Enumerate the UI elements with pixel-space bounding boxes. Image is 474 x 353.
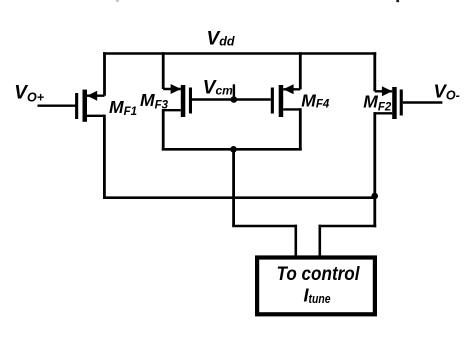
wire M_F1 source to M_F2 source (bottom long wire) <box>103 196 376 199</box>
wire rail drop to M_F2 drain <box>373 52 376 91</box>
wire rail drop to M_F4 drain <box>299 52 302 89</box>
box To control Itune <box>257 258 375 315</box>
wire right branch horizontal to box <box>319 225 377 228</box>
wire M_F2 source down <box>373 112 376 227</box>
wire tail down from sources node <box>232 149 235 226</box>
wire tail horizontal to box <box>232 225 297 228</box>
wire M_F3 source down <box>162 109 165 151</box>
wire rail drop to M_F3 drain <box>162 52 165 89</box>
transistor M_F1 <box>75 90 104 122</box>
svg-text:To control: To control <box>277 264 361 285</box>
wire M_F2 gate to Vo- <box>403 101 443 103</box>
node Vcm junction dot <box>231 96 238 103</box>
wire right stub into box <box>318 225 321 258</box>
wire tail stub into box <box>294 225 297 258</box>
node tail junction dot <box>230 146 237 153</box>
wire Vdd rail <box>103 52 376 55</box>
cropped text remnant top left <box>116 0 119 2</box>
wire Vcm line (M_F3 gate to M_F4 gate) <box>192 98 271 100</box>
transistor M_F3 <box>163 84 192 117</box>
cropped text remnant top right <box>396 0 399 2</box>
wire M_F1 source down <box>103 115 106 199</box>
wire M_F4 source down <box>299 108 302 150</box>
wire rail drop to M_F1 drain <box>103 52 106 95</box>
Vcm terminal tick <box>233 84 235 99</box>
wire Vo+ to M_F1 gate <box>38 104 76 106</box>
node sources junction dot <box>371 193 378 200</box>
wire M_F3/M_F4 source rail <box>162 148 302 151</box>
transistor M_F4 <box>271 84 301 117</box>
transistor M_F2 <box>375 86 403 119</box>
